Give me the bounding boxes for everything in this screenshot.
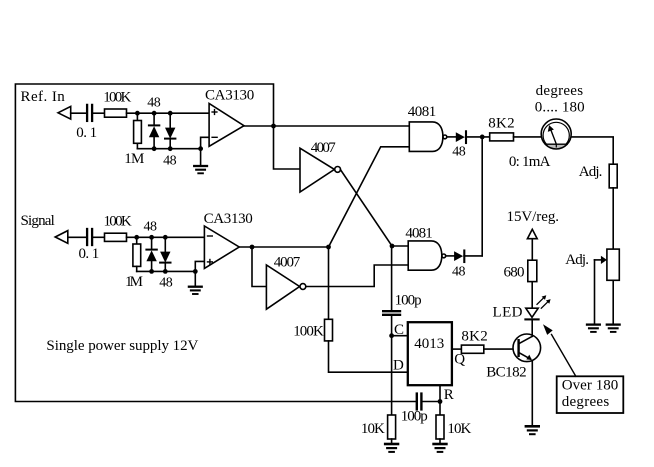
wire rail to op-amp + input ch2 — [195, 261, 204, 271]
svg-text:8K2: 8K2 — [461, 329, 487, 345]
wire D6 to diode-OR vertical — [464, 255, 482, 257]
wire 100K to D input of 4013 — [329, 341, 408, 372]
svg-text:0.... 180: 0.... 180 — [535, 100, 585, 116]
input arrow (Signal terminal) — [55, 231, 68, 244]
wire cap to C node down to 10K — [391, 316, 393, 415]
ground (emitter) — [526, 425, 539, 428]
callout box Over 180 degrees — [557, 376, 624, 413]
wire diagonal B : signal node to gate G1 lower input — [329, 147, 410, 247]
node X2 dot (NOT-ref / gate G2 input) — [390, 244, 395, 249]
svg-text:D: D — [393, 358, 404, 374]
svg-text:C: C — [394, 322, 404, 338]
resistor 8K2 (meter series) — [490, 133, 514, 141]
node dot D2 top — [168, 111, 173, 116]
svg-text:100K: 100K — [104, 214, 132, 230]
node dot 1M top ch2 — [134, 235, 139, 240]
wire R100K to op-amp - input ch2 — [127, 236, 205, 238]
wire node X2 to G2 top input — [392, 245, 408, 247]
diode D4 (down, ch2) — [164, 237, 166, 251]
resistor 10K (R pulldown) — [436, 415, 444, 439]
wire N2 output to gate G2 lower input — [306, 265, 408, 287]
svg-text:Adj.: Adj. — [565, 252, 589, 268]
resistor 100K (series, ch2) — [105, 233, 127, 241]
op-amp U2 CA3130 (ch2) — [204, 226, 239, 268]
svg-text:48: 48 — [144, 219, 158, 234]
ground (pot bottom) — [607, 323, 620, 325]
wire bottom rail ch1 — [137, 148, 200, 150]
resistor 8K2 (base) — [461, 345, 483, 353]
wire 8K2 to meter — [514, 136, 541, 138]
resistor 100K (D input series) — [325, 319, 333, 341]
wire U2 output — [239, 246, 328, 248]
wire R pin down through junction to 10K — [439, 386, 441, 415]
node dot rail D1 — [152, 146, 157, 151]
svg-text:Single power supply 12V: Single power supply 12V — [46, 338, 198, 354]
diode D1 (up, ch1) — [153, 113, 155, 125]
wire bottom rail ch2 — [137, 270, 196, 272]
wire R100K to op-amp + input — [127, 112, 210, 114]
ground (ch1 op-amp) — [200, 149, 202, 166]
svg-text:0. 1: 0. 1 — [79, 246, 100, 262]
svg-text:100p: 100p — [401, 408, 428, 424]
wire C node to 4013 C pin — [392, 335, 408, 337]
ground (10K left) — [391, 439, 393, 443]
wire arrow to C2 — [68, 236, 86, 238]
wire C2 to R 100K ch2 — [93, 236, 104, 238]
svg-text:4081: 4081 — [408, 104, 437, 120]
svg-text:1M: 1M — [124, 151, 144, 167]
node dot rail D3 — [149, 269, 154, 274]
svg-text:degrees: degrees — [536, 83, 584, 99]
svg-text:Ref. In: Ref. In — [21, 89, 66, 105]
node dot rail D4 — [163, 269, 168, 274]
input arrow (Ref. In terminal) — [58, 106, 71, 119]
node dot D1 top — [152, 111, 157, 116]
diode D3 (up, ch2) — [151, 237, 153, 249]
svg-text:CA3130: CA3130 — [204, 211, 253, 227]
supply arrow 15V/reg. — [527, 229, 537, 238]
wire node X2 down to capacitor 100p top — [391, 246, 393, 310]
wire rail to op-amp - input — [201, 137, 210, 148]
node dot D3 top — [149, 235, 154, 240]
ground (wiper) — [587, 323, 600, 325]
node dot D4 top — [163, 235, 168, 240]
resistor 1M (shunt, ch1) — [136, 113, 138, 120]
node dot rail ground — [198, 146, 203, 151]
svg-text:CA3130: CA3130 — [205, 87, 254, 103]
diode D2 (down, ch1) — [169, 113, 171, 127]
inverter N1 4007 (top) — [300, 148, 334, 192]
node dot rail D2 — [168, 146, 173, 151]
wire down to inverter N2 input — [252, 247, 266, 287]
node dot 1M top — [135, 111, 140, 116]
svg-text:48: 48 — [452, 264, 466, 279]
wire 680 to 15V arrow — [531, 239, 533, 261]
op-amp U1 CA3130 (ch1) — [209, 104, 244, 147]
svg-text:Signal: Signal — [21, 213, 55, 229]
svg-text:0: 1mA: 0: 1mA — [509, 154, 551, 170]
wire signal node down to R100K mid — [328, 247, 330, 319]
svg-text:degrees: degrees — [562, 394, 610, 410]
resistor 1M (shunt, ch2) — [136, 237, 138, 244]
svg-text:100p: 100p — [395, 292, 422, 308]
svg-text:BC182: BC182 — [486, 365, 526, 381]
AND gate G1 4081 (top) — [409, 122, 443, 151]
node dot meter junction — [480, 135, 485, 140]
svg-text:10K: 10K — [447, 421, 471, 437]
svg-text:48: 48 — [452, 144, 466, 159]
svg-text:48: 48 — [163, 153, 177, 168]
wire D5 to meter node — [466, 136, 490, 138]
resistor 680 — [528, 260, 537, 281]
flip-flop U3 4013 — [408, 322, 452, 385]
resistor 100K (series, ch1) — [105, 109, 127, 117]
wire G2 output to diode D6 — [446, 255, 454, 257]
svg-text:R: R — [444, 387, 454, 403]
svg-text:4081: 4081 — [405, 226, 432, 242]
wire U1 output to gate G1 top input — [244, 125, 409, 127]
resistor Adj. (upper trim) — [609, 164, 617, 188]
wire 8K2 to transistor base — [484, 348, 518, 350]
svg-text:100K: 100K — [293, 323, 324, 339]
AND gate G2 4081 (bottom) — [408, 241, 442, 270]
svg-text:8K2: 8K2 — [488, 116, 514, 132]
wire pot bottom to ground — [612, 280, 614, 324]
svg-text:48: 48 — [147, 96, 161, 111]
wire diode-OR vertical — [481, 137, 483, 256]
meter M1 (0...180 degrees) — [545, 144, 567, 149]
node dot C input — [389, 333, 394, 338]
node dot U1 output loop — [271, 124, 276, 129]
wire big loop (up, left, down, bottom to C bottom cap) — [15, 84, 415, 402]
wire G1 output to diode D5 — [447, 136, 456, 138]
capacitor 100p (C input series) — [383, 310, 400, 312]
svg-text:10K: 10K — [361, 421, 385, 437]
svg-text:Adj.: Adj. — [579, 164, 603, 180]
svg-text:15V/reg.: 15V/reg. — [507, 209, 560, 225]
diode D5 (G1 output) — [456, 132, 465, 142]
ground (10K right) — [439, 439, 441, 443]
LED D7 — [526, 308, 538, 317]
wire cap right plate to R junction — [423, 401, 440, 403]
resistor 10K (C pulldown) — [388, 415, 396, 439]
svg-text:4007: 4007 — [274, 255, 301, 271]
wire emitter down to ground — [531, 361, 533, 426]
wire diagonal A : N1 output to node X2 — [341, 170, 393, 246]
capacitor 100p (R input series, bottom) — [416, 394, 418, 410]
svg-text:48: 48 — [159, 276, 173, 291]
wire junction down to inverter N1 input — [274, 126, 301, 169]
node dot signal/D branch — [326, 245, 331, 250]
potentiometer Adj. (lower) — [607, 249, 619, 280]
wire meter to right column — [572, 137, 613, 164]
svg-text:100K: 100K — [103, 89, 131, 105]
wire Adj to potentiometer — [612, 188, 614, 249]
inverter N2 4007 (bottom) — [266, 265, 299, 309]
node dot rail ground ch2 — [193, 269, 198, 274]
svg-text:1M: 1M — [125, 274, 143, 290]
svg-text:Over 180: Over 180 — [562, 378, 619, 394]
wire wiper to ground — [594, 260, 596, 324]
diode D6 (G2 output) — [454, 251, 463, 261]
svg-text:0. 1: 0. 1 — [76, 125, 97, 141]
svg-text:4013: 4013 — [414, 336, 444, 352]
ground (ch2 op-amp) — [194, 271, 196, 286]
node dot U2 output — [250, 245, 255, 250]
wire arrow to C1 — [71, 112, 86, 114]
pot wiper arrow — [595, 259, 602, 261]
capacitor C 0.1 (series) — [86, 105, 88, 121]
svg-text:LED: LED — [493, 304, 523, 320]
capacitor C 0.1 (series ch2) — [86, 229, 88, 245]
wire LED anode up to 680 — [531, 282, 533, 309]
transistor Q1 BC182 — [513, 334, 541, 362]
svg-text:680: 680 — [504, 264, 525, 280]
svg-text:4007: 4007 — [311, 140, 337, 156]
wire Q output to 8K2 base resistor — [452, 348, 462, 350]
wire collector up to LED — [531, 319, 533, 336]
node dot R junction — [438, 399, 443, 404]
callout arrow to transistor — [552, 335, 576, 377]
wire C1 to R 100K — [93, 112, 104, 114]
